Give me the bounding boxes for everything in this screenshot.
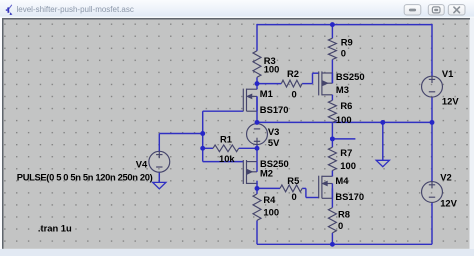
node junction 5 bbox=[255, 146, 260, 151]
svg-text:PULSE(0 5 0 5n 5n 120n 250n 20: PULSE(0 5 0 5n 5n 120n 250n 20) bbox=[17, 172, 153, 183]
voltage source V2 bbox=[422, 182, 443, 203]
wire mid column top to R9 bbox=[331, 25, 333, 39]
transistor M2 (BS250 PMOS) bbox=[243, 160, 257, 184]
svg-text:100: 100 bbox=[336, 114, 352, 125]
ground (V4) bbox=[153, 182, 166, 188]
svg-text:100: 100 bbox=[264, 64, 280, 75]
svg-text:BS170: BS170 bbox=[335, 191, 364, 202]
node junction 11 bbox=[330, 242, 335, 247]
wire R9 to M3 source bbox=[331, 60, 333, 84]
svg-text:R5: R5 bbox=[287, 175, 299, 186]
resistor R9 bbox=[328, 38, 336, 59]
wire M3 drain to R6 bbox=[331, 95, 333, 100]
node junction 4 bbox=[200, 146, 205, 151]
wire R5 right lead bbox=[302, 187, 306, 189]
svg-text:BS250: BS250 bbox=[336, 71, 365, 82]
wire middle output rail bbox=[257, 121, 432, 123]
svg-text:R1: R1 bbox=[220, 134, 232, 145]
svg-text:BS170: BS170 bbox=[260, 104, 289, 115]
svg-text:0: 0 bbox=[338, 220, 343, 231]
wire V3 to M2 source bbox=[256, 144, 258, 161]
wire R2 left lead bbox=[257, 83, 281, 85]
node junction 3 bbox=[200, 131, 205, 136]
wire to ground bbox=[382, 122, 384, 160]
svg-text:V2: V2 bbox=[440, 172, 451, 183]
voltage source V1 bbox=[422, 76, 443, 97]
node junction 6 bbox=[255, 120, 260, 125]
svg-text:V3: V3 bbox=[268, 126, 279, 137]
node junction 2 bbox=[330, 22, 335, 27]
resistor R7 bbox=[328, 147, 336, 170]
wire V4 to left vertical bbox=[159, 133, 202, 135]
svg-text:10k: 10k bbox=[219, 153, 235, 164]
svg-text:V4: V4 bbox=[136, 159, 148, 170]
wire M2 drain to R4 bbox=[256, 181, 258, 194]
svg-text:0: 0 bbox=[292, 88, 297, 99]
svg-text:100: 100 bbox=[263, 207, 279, 218]
wire R5 to M4 gate step bbox=[305, 188, 307, 197]
svg-text:level-shifter-push-pull-mosfet: level-shifter-push-pull-mosfet.asc bbox=[17, 5, 134, 14]
wire R3 to M1 drain bbox=[256, 77, 258, 89]
wire top rail bbox=[257, 24, 432, 26]
LTspice app icon bbox=[6, 4, 13, 15]
svg-text:5V: 5V bbox=[268, 137, 280, 148]
node junction 8 bbox=[430, 120, 435, 125]
svg-text:12V: 12V bbox=[440, 197, 457, 208]
window bottom strip bbox=[0, 249, 474, 256]
transistor M4 (BS170 NMOS) bbox=[319, 176, 333, 199]
wire left column top to R3 bbox=[256, 24, 258, 51]
node junction 1 bbox=[255, 81, 260, 86]
wire R2 to M3 gate step bbox=[312, 73, 314, 83]
voltage source V3 bbox=[247, 124, 268, 145]
wire M4 source to R8 bbox=[331, 188, 333, 207]
svg-text:M4: M4 bbox=[335, 175, 349, 186]
svg-text:R9: R9 bbox=[341, 37, 353, 48]
canvas border bbox=[0, 17, 474, 18]
transistor M3 (BS250 PMOS) bbox=[319, 71, 333, 95]
wire to M2 gate bbox=[203, 161, 244, 163]
svg-text:0: 0 bbox=[292, 191, 297, 202]
wire R1 left lead bbox=[203, 147, 213, 149]
node junction 7 bbox=[380, 120, 385, 125]
svg-text:V1: V1 bbox=[442, 68, 453, 79]
resistor R4 bbox=[253, 194, 261, 221]
wire output stub bbox=[332, 138, 355, 140]
resistor R6 bbox=[328, 100, 336, 122]
ground (output rail) bbox=[376, 160, 389, 166]
resistor R3 bbox=[253, 51, 261, 78]
wire R7 to M4 drain bbox=[331, 171, 333, 177]
svg-text:R8: R8 bbox=[338, 209, 350, 220]
titlebar button restore bbox=[428, 5, 444, 15]
wire R1 right lead bbox=[239, 147, 257, 149]
svg-text:.tran 1u: .tran 1u bbox=[38, 222, 72, 233]
resistor R2 bbox=[281, 80, 302, 87]
node junction 9 bbox=[255, 186, 260, 191]
wire M1 source to V3 bbox=[256, 96, 258, 124]
svg-text:0: 0 bbox=[341, 48, 346, 59]
svg-text:R4: R4 bbox=[263, 194, 276, 205]
wire bottom rail bbox=[257, 243, 432, 245]
svg-text:100: 100 bbox=[340, 160, 356, 171]
wire V2 to bottom rail bbox=[431, 202, 433, 244]
svg-text:M1: M1 bbox=[260, 88, 273, 99]
svg-text:R6: R6 bbox=[340, 100, 352, 111]
resistor R8 bbox=[328, 208, 336, 233]
voltage source V4 bbox=[149, 151, 170, 172]
transistor M1 (BS170 NMOS) bbox=[243, 89, 257, 112]
wire R2 right lead bbox=[302, 83, 312, 85]
wire to M1 gate bbox=[203, 110, 244, 112]
wire right column top to V1 bbox=[431, 24, 433, 76]
wire R6 region column bbox=[331, 122, 333, 147]
svg-text:R2: R2 bbox=[287, 68, 299, 79]
node junction 10 bbox=[330, 136, 335, 141]
resistor R5 bbox=[280, 185, 302, 192]
wire V1 to node bbox=[431, 97, 433, 182]
svg-text:M3: M3 bbox=[336, 84, 349, 95]
wire R8 to bottom rail bbox=[331, 233, 333, 244]
svg-text:R7: R7 bbox=[340, 147, 352, 158]
svg-text:12V: 12V bbox=[442, 96, 459, 107]
wire V4 bottom lead bbox=[158, 172, 160, 183]
titlebar button close bbox=[448, 5, 465, 15]
resistor R1 bbox=[213, 145, 239, 152]
svg-text:M2: M2 bbox=[260, 167, 273, 178]
wire V4 top lead bbox=[158, 134, 160, 152]
wire left vertical bbox=[202, 111, 204, 161]
wire R5 left lead bbox=[257, 187, 280, 189]
titlebar button min bbox=[404, 5, 421, 15]
wire R4 to bottom rail bbox=[256, 220, 258, 244]
